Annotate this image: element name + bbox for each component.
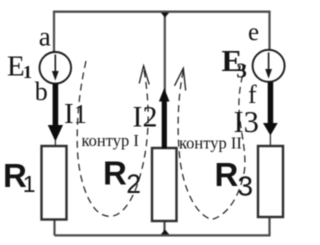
node junction bottom [161,230,169,235]
svg-text:I1: I1 [64,98,87,130]
resistor R1 body [42,146,67,220]
wire R3 bottom stub [268,216,270,236]
svg-text:контур I: контур I [82,131,139,150]
svg-text:3: 3 [236,59,247,83]
label R2 [103,154,141,199]
svg-text:R: R [103,154,127,191]
wire R1 bottom stub [53,219,55,236]
loop contour I dashed curve [77,61,148,216]
loop contour I arrowhead [139,66,149,85]
EMF source E1 circle [40,52,72,84]
current arrow I3 [263,82,278,147]
wire middle vertical [164,12,166,92]
label R3 [215,156,254,202]
resistor R3 body [258,146,283,217]
resistor R2 body [152,148,177,221]
svg-text:2: 2 [126,169,141,199]
svg-text:R: R [215,156,239,193]
EMF source E3 circle [253,50,285,82]
node junction top [161,13,169,18]
svg-text:e: e [248,19,259,46]
svg-text:a: a [39,21,51,51]
wire top horizontal [53,11,271,13]
loop contour II dashed curve [178,65,245,220]
svg-text:1: 1 [23,171,36,197]
current arrow I2 [159,88,170,149]
svg-text:контур II: контур II [179,134,242,153]
wire right vertical stub [268,11,270,51]
svg-text:I2: I2 [133,101,158,134]
svg-text:1: 1 [23,62,32,82]
current arrow I1 [48,84,63,147]
loop contour II arrowhead [175,68,186,90]
wire R2 bottom stub [163,220,165,235]
wire bottom horizontal [55,234,271,236]
label R1 [3,157,36,197]
label E1 [7,51,32,83]
svg-text:b: b [35,77,48,106]
svg-text:3: 3 [238,171,254,202]
label E3 [222,43,247,82]
wire left vertical stub [53,11,55,53]
